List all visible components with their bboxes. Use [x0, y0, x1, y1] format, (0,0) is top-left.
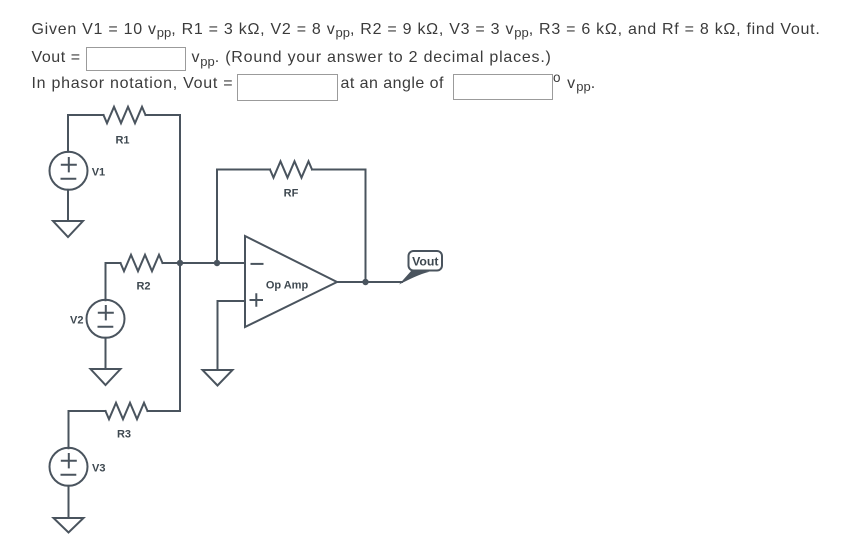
op-amp U1 — [245, 236, 337, 327]
svg-text:RF: RF — [284, 188, 299, 200]
svg-text:V2: V2 — [70, 315, 83, 327]
wire V2 to ground — [105, 338, 107, 369]
answer input box 2 — [237, 74, 338, 101]
question line 3 label — [32, 74, 234, 94]
wire V1 to R1 — [68, 115, 104, 152]
wire non-inverting input to ground — [218, 301, 246, 370]
svg-text:V1: V1 — [92, 167, 105, 179]
wire RF right branch — [312, 170, 366, 283]
question line 1 — [32, 20, 821, 40]
source V3 — [50, 448, 88, 486]
answer input box 1 — [86, 47, 186, 71]
wire V3 to R3 — [69, 411, 106, 448]
wire V2 to R2 — [106, 263, 121, 300]
pin minus — [252, 263, 263, 265]
svg-text:R2: R2 — [136, 281, 150, 293]
svg-text:R3: R3 — [117, 429, 131, 441]
wire R3 to bus — [148, 410, 181, 412]
question line 3 end — [553, 74, 596, 94]
ground (V2) — [91, 369, 121, 385]
node junction RF/output — [362, 279, 368, 285]
resistor R3 — [106, 403, 148, 419]
source V2 — [87, 300, 125, 338]
question line 2 rest — [192, 48, 552, 68]
resistor R1 — [104, 107, 146, 123]
node junction bus/R2 — [177, 260, 183, 266]
ground (V1) — [53, 221, 83, 237]
wire R1 to bus — [146, 114, 181, 116]
resistor R2 — [121, 255, 163, 271]
wire op-amp output — [337, 281, 402, 283]
node junction RF/inverting — [214, 260, 220, 266]
question line 2 label — [32, 48, 81, 68]
question line 3 middle — [341, 74, 444, 94]
wire V1 to ground — [67, 190, 69, 221]
wire bus vertical — [179, 115, 181, 411]
ground (op-amp +) — [203, 370, 233, 386]
wire R2 to op-amp inverting input — [163, 262, 246, 264]
svg-text:Op Amp: Op Amp — [266, 280, 309, 292]
pin plus — [251, 294, 263, 305]
svg-text:V3: V3 — [92, 463, 105, 475]
ground (V3) — [54, 518, 84, 533]
resistor RF — [270, 161, 312, 177]
source V1 — [50, 152, 88, 190]
wire V3 to ground — [68, 486, 70, 518]
Vout flag tail — [399, 271, 430, 285]
svg-text:R1: R1 — [115, 135, 129, 147]
wire RF left branch — [217, 170, 270, 264]
svg-text:Vout: Vout — [412, 254, 438, 268]
Vout flag box — [409, 251, 443, 271]
answer input box 3 — [453, 74, 553, 100]
